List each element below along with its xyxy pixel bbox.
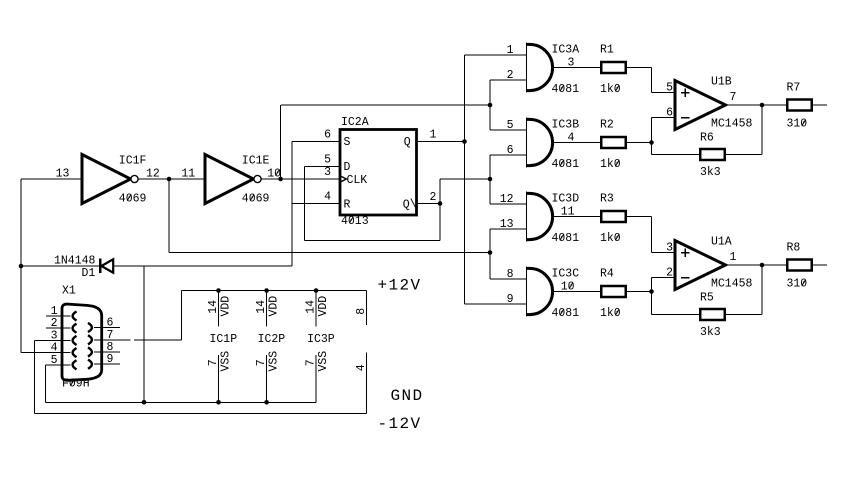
svg-text:5: 5 (324, 154, 331, 167)
svg-text:IC1P: IC1P (210, 333, 238, 346)
svg-text:4069: 4069 (242, 193, 270, 206)
svg-text:D: D (344, 161, 351, 174)
svg-text:IC3B: IC3B (552, 119, 580, 132)
svg-text:12: 12 (500, 193, 514, 206)
svg-text:4069: 4069 (119, 193, 147, 206)
svg-text:2: 2 (507, 69, 514, 82)
svg-text:R5: R5 (700, 292, 714, 305)
svg-text:6: 6 (107, 317, 114, 330)
svg-text:VSS: VSS (317, 351, 330, 372)
svg-text:S: S (344, 136, 351, 149)
svg-text:IC2P: IC2P (258, 333, 286, 346)
svg-text:4013: 4013 (341, 215, 369, 228)
svg-text:1k0: 1k0 (600, 158, 621, 171)
svg-text:2: 2 (666, 266, 673, 279)
svg-text:F09H: F09H (62, 378, 90, 391)
svg-text:2: 2 (430, 191, 437, 204)
svg-text:VDD: VDD (219, 296, 232, 317)
svg-text:4081: 4081 (552, 158, 580, 171)
svg-text:U1B: U1B (711, 76, 732, 89)
svg-text:U1A: U1A (711, 236, 732, 249)
svg-text:R7: R7 (787, 81, 801, 94)
svg-text:11: 11 (181, 168, 195, 181)
svg-text:4081: 4081 (552, 232, 580, 245)
svg-text:3: 3 (324, 166, 331, 179)
svg-text:VSS: VSS (267, 351, 280, 372)
svg-text:IC3C: IC3C (552, 268, 580, 281)
svg-text:6: 6 (324, 129, 331, 142)
svg-text:14: 14 (305, 300, 318, 314)
svg-text:7: 7 (305, 359, 318, 366)
svg-text:8: 8 (355, 308, 368, 315)
svg-text:7: 7 (207, 359, 220, 366)
svg-text:6: 6 (507, 144, 514, 157)
svg-text:310: 310 (787, 278, 808, 291)
svg-text:4: 4 (355, 364, 368, 371)
svg-text:7: 7 (730, 91, 737, 104)
svg-text:8: 8 (107, 341, 114, 354)
svg-text:9: 9 (507, 293, 514, 306)
svg-text:R1: R1 (600, 44, 614, 57)
svg-text:7: 7 (255, 359, 268, 366)
svg-text:R6: R6 (700, 132, 714, 145)
svg-text:1: 1 (51, 305, 58, 318)
svg-text:4: 4 (568, 132, 575, 145)
svg-text:1k0: 1k0 (600, 83, 621, 96)
svg-text:CLK: CLK (347, 174, 368, 187)
svg-text:R: R (344, 198, 351, 211)
svg-text:R4: R4 (600, 268, 614, 281)
svg-text:MC1458: MC1458 (711, 278, 753, 291)
svg-text:-12V: -12V (378, 415, 422, 433)
svg-text:13: 13 (56, 168, 70, 181)
svg-text:Q\: Q\ (403, 198, 417, 211)
svg-text:X1: X1 (62, 285, 76, 298)
svg-text:11: 11 (561, 206, 575, 219)
svg-text:14: 14 (207, 300, 220, 314)
svg-text:IC3P: IC3P (307, 333, 335, 346)
svg-text:1k0: 1k0 (600, 307, 621, 320)
svg-text:GND: GND (391, 387, 424, 405)
svg-text:8: 8 (507, 268, 514, 281)
svg-text:13: 13 (500, 218, 514, 231)
svg-text:R8: R8 (787, 241, 801, 254)
svg-text:IC3D: IC3D (552, 193, 580, 206)
svg-text:3k3: 3k3 (700, 166, 721, 179)
svg-text:3: 3 (51, 329, 58, 342)
svg-text:3k3: 3k3 (700, 326, 721, 339)
svg-text:IC1F: IC1F (119, 155, 147, 168)
svg-text:IC1E: IC1E (242, 155, 270, 168)
svg-text:R2: R2 (600, 119, 614, 132)
svg-text:14: 14 (255, 300, 268, 314)
svg-text:6: 6 (666, 106, 673, 119)
svg-text:VDD: VDD (317, 296, 330, 317)
svg-text:9: 9 (107, 353, 114, 366)
svg-text:MC1458: MC1458 (711, 118, 753, 131)
svg-text:D1: D1 (82, 267, 96, 280)
svg-text:4: 4 (51, 342, 58, 355)
svg-text:3: 3 (568, 57, 575, 70)
svg-text:Q: Q (404, 136, 411, 149)
svg-text:310: 310 (787, 118, 808, 131)
svg-text:R3: R3 (600, 193, 614, 206)
svg-text:3: 3 (666, 241, 673, 254)
svg-text:VSS: VSS (219, 351, 232, 372)
svg-text:4081: 4081 (552, 307, 580, 320)
svg-text:4081: 4081 (552, 83, 580, 96)
svg-text:4: 4 (324, 191, 331, 204)
svg-text:2: 2 (51, 317, 58, 330)
svg-text:1: 1 (730, 251, 737, 264)
svg-text:IC2A: IC2A (341, 116, 369, 129)
svg-text:1N4148: 1N4148 (54, 255, 96, 268)
svg-text:+12V: +12V (378, 277, 422, 295)
svg-text:IC3A: IC3A (552, 44, 580, 57)
svg-text:1k0: 1k0 (600, 232, 621, 245)
svg-text:1: 1 (430, 129, 437, 142)
svg-text:5: 5 (51, 354, 58, 367)
svg-text:1: 1 (507, 44, 514, 57)
svg-text:5: 5 (666, 81, 673, 94)
svg-text:7: 7 (107, 329, 114, 342)
svg-text:VDD: VDD (267, 296, 280, 317)
svg-text:5: 5 (507, 119, 514, 132)
